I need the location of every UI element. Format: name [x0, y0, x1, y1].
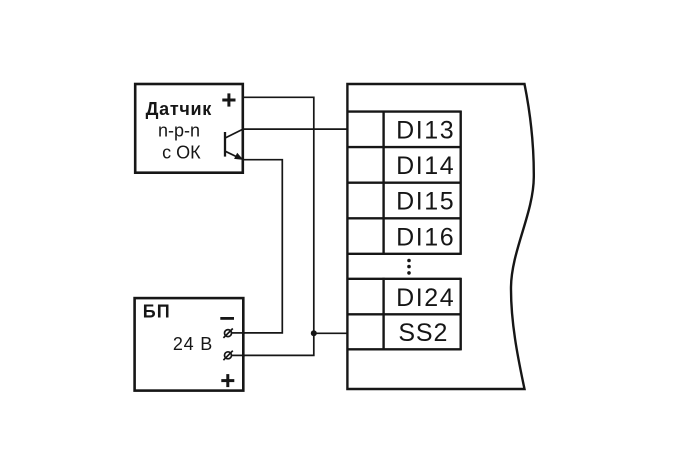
wire: transistor emitter to PSU - terminal [232, 160, 283, 333]
svg-text:DI15: DI15 [396, 188, 455, 216]
terminal block right edge [460, 111, 462, 351]
sensor box [135, 84, 243, 173]
PSU screw terminal upper (minus output) [223, 329, 245, 338]
transistor emitter arrowhead [234, 153, 243, 160]
svg-text:с ОК: с ОК [162, 142, 201, 162]
svg-text:DI14: DI14 [396, 152, 455, 180]
wire: PSU + terminal up to junction [232, 333, 314, 355]
wire: transistor collector to DI13 [242, 128, 347, 130]
svg-text:DI16: DI16 [396, 223, 455, 251]
PSU minus terminal mark [220, 317, 234, 320]
svg-text:DI24: DI24 [396, 284, 455, 312]
terminal grid vertical divider [382, 111, 384, 351]
sensor + terminal mark [222, 93, 235, 106]
PSU plus terminal mark [221, 374, 234, 387]
svg-text:SS2: SS2 [398, 319, 448, 347]
svg-text:Датчик: Датчик [146, 99, 213, 119]
svg-text:DI13: DI13 [396, 117, 455, 145]
terminal grid horizontal lines [347, 112, 460, 350]
ellipsis dots between DI16 and DI24 [407, 259, 411, 275]
power supply box БП [135, 298, 244, 391]
device module outline (torn right edge) [347, 84, 533, 389]
svg-text:БП: БП [143, 301, 171, 321]
transistor Q1 (n-p-n open collector) [225, 129, 243, 158]
junction node [311, 330, 317, 336]
svg-text:24 В: 24 В [173, 334, 213, 354]
wire: sensor + to SS2 (via junction) [242, 97, 347, 333]
svg-text:n-p-n: n-p-n [158, 121, 200, 141]
PSU screw terminal lower (plus output) [223, 351, 245, 360]
